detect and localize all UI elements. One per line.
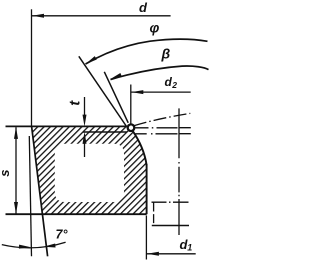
dimension line d2 <box>131 91 191 93</box>
extension line for d (left) <box>31 9 33 126</box>
centerline of root circle (dash-dot) <box>136 133 191 135</box>
arrow 7deg left <box>19 245 31 250</box>
dimension line d1 <box>147 253 196 255</box>
tooth root line <box>83 131 127 133</box>
extension line for d2 above tip <box>130 85 132 125</box>
dimension line d <box>32 15 171 17</box>
svg-text:1: 1 <box>187 243 192 253</box>
svg-text:d: d <box>139 0 148 15</box>
svg-text:s: s <box>0 170 12 177</box>
arrow of d1 <box>147 252 159 256</box>
svg-text:d: d <box>165 75 173 89</box>
rake face line 1 (phi) <box>79 56 126 126</box>
dimension t upper line with down arrow <box>84 97 86 117</box>
extension line for d1 <box>145 216 147 260</box>
arrow of beta <box>109 73 122 81</box>
bore top centerline (dash-dot) <box>152 201 189 203</box>
bore left hidden edge (dashed) <box>153 203 155 226</box>
arrow of d2 <box>131 90 143 94</box>
fillet curve from tip to right edge <box>133 131 147 165</box>
dimension line s <box>15 127 17 214</box>
bore bottom edge <box>152 225 189 227</box>
arrow 7deg right <box>43 244 55 249</box>
top edge of body (with s extension line to left) <box>6 125 127 127</box>
centerline horizontal through tip (dash-dot) <box>135 127 191 129</box>
tooth tip circle <box>128 124 135 131</box>
rake face line 2 (beta) <box>104 72 128 123</box>
arrow of phi <box>84 56 96 66</box>
hatched section band of blade body <box>32 126 147 214</box>
left tapered edge of body, extended below base for 7 deg angle <box>32 126 48 256</box>
right edge of body <box>146 164 148 214</box>
vertical reference line for 7 deg angle <box>29 136 31 256</box>
dimension arc phi <box>86 39 208 64</box>
arrow s top <box>14 127 18 139</box>
svg-text:7°: 7° <box>56 228 69 242</box>
svg-text:2: 2 <box>171 80 177 90</box>
bottom edge of body (with extension line to left) <box>6 213 147 215</box>
arrow of d <box>32 14 44 18</box>
dimension t lower line with up arrow <box>84 141 86 157</box>
angle arc 7 deg <box>2 242 66 248</box>
centerline arc of outer circle (dash-dot) <box>134 113 191 125</box>
svg-text:φ: φ <box>150 20 160 36</box>
dimension arc beta <box>111 66 209 80</box>
vertical axis centerline (dash-dot) <box>178 108 180 235</box>
svg-text:β: β <box>161 46 171 62</box>
arrow s bottom <box>14 202 18 214</box>
